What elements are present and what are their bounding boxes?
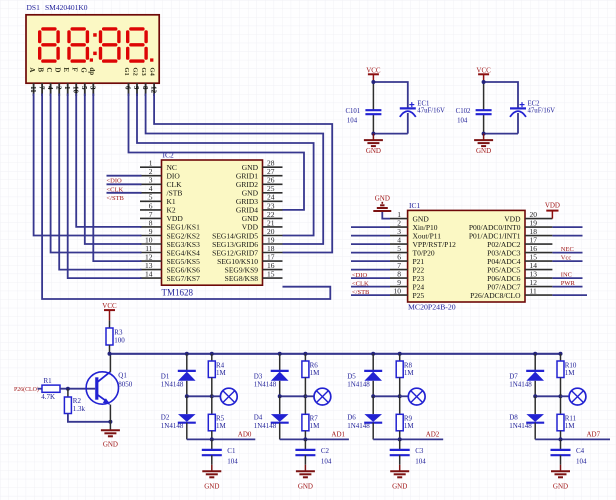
svg-text:GND: GND [298, 482, 313, 490]
IC1 pin 16 (P03/ADC3) [487, 244, 552, 257]
svg-text:C2: C2 [321, 447, 330, 455]
svg-text:AD0: AD0 [238, 431, 252, 439]
IC2 pin 6 (K2) [140, 201, 176, 214]
IC2 pin 14 (SEG7/KS7) [140, 270, 200, 283]
IC2 part number TM1628 [162, 287, 194, 297]
wire middle node of D7/R10 [533, 394, 562, 398]
node label Vcc [561, 255, 572, 262]
svg-text:R11: R11 [565, 414, 577, 422]
wire display seg C to IC2 pin 11 (SEG4) [51, 94, 142, 253]
svg-text:12: 12 [149, 86, 157, 94]
IC1 pin 20 (VDD) [504, 210, 552, 223]
svg-text:G2: G2 [132, 67, 139, 75]
diode D2 1N4148 (cathode down) [161, 396, 196, 439]
display grid pin letters [123, 67, 156, 76]
node label AD7 [587, 431, 601, 439]
wire display seg B wrap-around to IC2 pin 15 (SEG8) [42, 94, 330, 300]
IC2 pin 27 (GRID1) [236, 167, 283, 180]
wire display seg DP to IC2 pin 12 (SEG5) [93, 94, 141, 262]
svg-text:15: 15 [267, 270, 275, 279]
ground below C102 [474, 134, 493, 156]
svg-text:D8: D8 [509, 414, 518, 422]
svg-text:C3: C3 [415, 447, 424, 455]
display colon dots [93, 33, 97, 55]
svg-text:G4: G4 [149, 67, 156, 76]
svg-text:GND: GND [476, 147, 491, 155]
lamp (photo sensor) symbol [561, 388, 586, 405]
node label AD0 [238, 431, 252, 439]
svg-text:Q1: Q1 [118, 372, 127, 380]
ground below C1 [202, 465, 221, 491]
svg-text:8050: 8050 [118, 381, 133, 389]
svg-text:TM1628: TM1628 [162, 287, 194, 297]
wire bottom node AD7 [535, 437, 610, 441]
diode D5 1N4148 (cathode up) [347, 354, 382, 397]
IC2 pin 11 (SEG4/KS4) [140, 244, 200, 257]
svg-text:dp: dp [88, 67, 96, 75]
svg-text:C4: C4 [576, 447, 585, 455]
svg-text:Vcc: Vcc [561, 255, 572, 262]
power VDD at IC1 pin 20 [545, 202, 560, 219]
svg-text:1N4148: 1N4148 [509, 422, 532, 430]
svg-text:104: 104 [227, 457, 238, 465]
IC2 pin 1 (NC) [140, 159, 177, 172]
IC1 pin 14 (P05/ADC5) [487, 261, 552, 274]
svg-text:MC20P24B-20: MC20P24B-20 [408, 302, 456, 311]
IC1 pin 10 (P25) [390, 287, 424, 300]
svg-text:D2: D2 [161, 414, 170, 422]
wire stub IC1 pin 2 [351, 226, 390, 228]
svg-text:11: 11 [530, 287, 537, 296]
wire R2 to emitter node [68, 414, 113, 424]
node label DIO at IC2 [107, 178, 123, 185]
svg-text:8: 8 [141, 86, 149, 90]
node label INC [561, 272, 572, 279]
svg-text:1M: 1M [565, 369, 576, 377]
IC2 pin 21 (VDD) [242, 218, 283, 231]
lamp (photo sensor) symbol [212, 388, 237, 405]
svg-text:1N4148: 1N4148 [254, 422, 277, 430]
resistor R11 1M [557, 396, 577, 439]
svg-text:R7: R7 [310, 414, 319, 422]
display digit 2 (7-segment) [67, 27, 89, 63]
IC1 pin 9 (P24) [390, 278, 424, 291]
node label /STB at IC1 [352, 289, 370, 296]
resistor R10 1M [557, 354, 577, 397]
svg-text:R1: R1 [44, 377, 53, 385]
wire Q1 emitter to ground [109, 405, 111, 431]
power VCC at C102 [476, 66, 491, 82]
IC1 pin 2 (Xin/P10) [390, 219, 438, 232]
wire bottom node AD2 [373, 437, 443, 441]
wire middle node of D1/R4 [185, 394, 214, 398]
svg-text:˂/STB: ˂/STB [107, 195, 125, 202]
power VCC at C101 [366, 66, 381, 82]
wire display seg D to IC2 pin 13 (SEG6) [59, 94, 141, 270]
IC2 pin 18 (SEG12/GRID7) [212, 244, 282, 257]
capacitor C1 104 [202, 439, 239, 465]
display pins (stubs below body) [34, 83, 155, 96]
svg-text:F: F [71, 67, 79, 71]
svg-text:1N4148: 1N4148 [161, 381, 184, 389]
svg-text:AD7: AD7 [587, 431, 601, 439]
display digit 3 (7-segment) [99, 27, 121, 63]
IC2 pin 2 (DIO) [140, 167, 180, 180]
wire Q1 collector to rail [109, 354, 111, 372]
wire IC2 pin 3 net CLK [107, 183, 142, 185]
svg-text:P26/ADC8/CLO: P26/ADC8/CLO [470, 291, 521, 300]
svg-text:4: 4 [46, 86, 54, 90]
svg-text:A: A [28, 67, 36, 72]
svg-text:C102: C102 [456, 108, 471, 115]
capacitor C4 104 [551, 439, 588, 465]
wire display grid G3 to IC2 pin 19 (GRID6) [146, 94, 324, 245]
svg-text:AD2: AD2 [426, 431, 440, 439]
IC2 pin 24 (GRID3) [236, 193, 283, 206]
wire stub IC1 pin 15 [552, 260, 582, 262]
display decimal points [90, 58, 154, 61]
svg-text:C1: C1 [227, 447, 236, 455]
wire IC1 pin 10 net /STB [351, 294, 390, 296]
svg-text:G: G [79, 67, 87, 73]
diode D1 1N4148 (cathode up) [161, 354, 196, 397]
IC1 pin 18 (P01/ADC1/INT1) [469, 227, 553, 240]
IC2 pin 26 (GRID2) [236, 176, 283, 189]
IC2 pin 15 (SEG8/KS8) [225, 270, 283, 283]
svg-text:6: 6 [124, 86, 132, 90]
svg-text:9: 9 [132, 86, 140, 90]
wire display seg A to IC2 pin 9 (SEG2) [34, 94, 142, 236]
svg-text:R5: R5 [216, 414, 225, 422]
ground below C4 [551, 465, 570, 491]
IC2 designator label [163, 150, 175, 159]
IC1 pin 13 (P06/ADC6) [487, 270, 552, 283]
resistor R9 1M [396, 396, 414, 439]
display digit 4 (7-segment) [126, 27, 148, 63]
resistor R7 1M [302, 396, 320, 439]
resistor R5 1M [208, 396, 226, 439]
svg-text:D3: D3 [254, 372, 263, 380]
wire stub IC1 pin 19 [552, 226, 582, 228]
IC2 pin 9 (SEG2/KS2) [140, 227, 200, 240]
IC1 pin 7 (P22) [390, 261, 424, 274]
svg-text:1M: 1M [216, 422, 227, 430]
svg-text:GND: GND [204, 482, 219, 490]
node label CLK at IC2 [107, 186, 124, 193]
svg-text:D1: D1 [161, 372, 170, 380]
svg-text:11: 11 [29, 86, 37, 93]
wire bottom node AD1 [280, 437, 349, 441]
svg-text:P26(CLO): P26(CLO) [14, 386, 39, 393]
svg-text:D7: D7 [509, 372, 518, 380]
svg-text:VCC: VCC [476, 66, 491, 74]
svg-text:C: C [45, 67, 53, 72]
svg-text:˂DIO: ˂DIO [352, 272, 368, 279]
svg-text:104: 104 [576, 457, 587, 465]
svg-text:1M: 1M [310, 422, 321, 430]
wire stub IC1 pin 6 [351, 260, 390, 262]
diode D3 1N4148 (cathode up) [254, 354, 289, 397]
node label P26(CLO) [14, 386, 39, 393]
svg-text:47uF/16V: 47uF/16V [528, 107, 556, 114]
node rail junction at D1 column [185, 352, 214, 356]
display pin numbers [29, 86, 158, 94]
svg-text:IC1: IC1 [409, 201, 421, 210]
svg-text:D: D [54, 67, 62, 72]
wire display grid G4 to IC2 pin 18 (GRID7) [154, 94, 332, 253]
node rail junction at D3 column [278, 352, 308, 356]
transistor Q1 8050 (NPN) [86, 372, 133, 405]
svg-text:VDD: VDD [545, 202, 560, 210]
svg-text:1M: 1M [310, 369, 321, 377]
ground at IC1 pin 1 (bars point up) [373, 195, 391, 211]
wire IC1 pin 1 to ground [382, 211, 390, 219]
IC1 pin 19 (P00/ADC0/INT0) [469, 219, 553, 232]
IC1 pin 3 (Xout/P11) [390, 227, 441, 240]
svg-text:GND: GND [103, 440, 118, 448]
node label /STB at IC2 [107, 195, 125, 202]
svg-text:R4: R4 [216, 361, 225, 369]
svg-text:104: 104 [347, 118, 358, 125]
ground below C3 [390, 465, 409, 491]
svg-text:104: 104 [415, 457, 426, 465]
svg-text:NEC: NEC [561, 246, 574, 253]
svg-text:47uF/16V: 47uF/16V [417, 107, 445, 114]
svg-text:10: 10 [71, 86, 79, 94]
display segment pin letters [28, 67, 96, 75]
ground below C2 [296, 465, 315, 491]
svg-text:1N4148: 1N4148 [509, 381, 532, 389]
resistor R8 1M [396, 354, 414, 397]
display DS1 SM420401K0 body [26, 15, 159, 83]
IC1 pin 5 (T0/P20) [390, 244, 435, 257]
svg-text:DS1: DS1 [27, 3, 41, 12]
capacitor C3 104 [390, 439, 427, 465]
node label DIO at IC1 [352, 272, 368, 279]
svg-text:1M: 1M [565, 422, 576, 430]
svg-text:100: 100 [114, 336, 125, 344]
wire P26(CLO) to R1 [38, 388, 43, 390]
wire stub IC1 pin 11 [552, 294, 587, 296]
IC2 pin 20 (SEG14/GRID5) [212, 227, 282, 240]
svg-text:R8: R8 [404, 361, 413, 369]
wire IC1 pin 9 net CLK [351, 286, 390, 288]
node rail junction at D7 column [533, 352, 562, 356]
wire stub IC1 pin 13 [552, 277, 582, 279]
IC1 pin 15 (P04/ADC4) [487, 253, 552, 266]
svg-text:R10: R10 [565, 361, 577, 369]
svg-text:1N4148: 1N4148 [347, 381, 370, 389]
svg-text:G1: G1 [123, 67, 130, 75]
wire collector rail across sensor groups [108, 352, 561, 356]
svg-text:104: 104 [321, 457, 332, 465]
IC2 pin 16 (SEG9/KS9) [225, 261, 283, 274]
svg-text:10: 10 [394, 287, 402, 296]
diode D6 1N4148 (cathode down) [347, 396, 382, 439]
resistor R1 4.7K [41, 377, 60, 401]
svg-text:1N4148: 1N4148 [347, 422, 370, 430]
IC2 pin 12 (SEG5/KS5) [140, 253, 200, 266]
IC1 pin 1 (GND) [390, 210, 429, 223]
svg-text:GND: GND [392, 482, 407, 490]
svg-text:2: 2 [54, 86, 62, 90]
svg-text:R3: R3 [114, 328, 123, 336]
svg-text:˂CLK: ˂CLK [352, 280, 369, 287]
svg-text:C101: C101 [345, 108, 360, 115]
node label CLK at IC1 [352, 280, 369, 287]
svg-text:INC: INC [561, 272, 572, 279]
svg-text:104: 104 [457, 118, 468, 125]
svg-text:VCC: VCC [102, 302, 117, 310]
wire stub IC1 pin 12 [552, 286, 582, 288]
wire stub IC1 pin 3 [351, 235, 390, 237]
svg-text:3: 3 [89, 86, 97, 90]
svg-text:SM420401K0: SM420401K0 [45, 3, 88, 12]
IC1 pin 12 (P07/ADC7) [487, 278, 552, 291]
display digit 1 (7-segment) [38, 27, 60, 63]
IC2 pin 19 (SEG13/GRID6) [212, 235, 282, 248]
svg-text:1M: 1M [404, 422, 415, 430]
op IC U2: TM1628 body [162, 160, 263, 285]
wire VCC loop for C101/EC1 [371, 80, 407, 136]
svg-text:GND: GND [375, 195, 390, 203]
wire IC1 pin 8 net DIO [351, 277, 390, 279]
wire stub IC1 pin 7 [351, 269, 390, 271]
wire display seg G to IC2 pin 10 (SEG3) [85, 94, 142, 245]
node label AD2 [426, 431, 440, 439]
capacitor C2 104 [295, 439, 332, 465]
diode D4 1N4148 (cathode down) [254, 396, 289, 439]
ground below C101 [364, 134, 383, 156]
svg-text:7: 7 [37, 86, 45, 90]
diode D7 1N4148 (cathode up) [509, 354, 544, 397]
node label NEC [561, 246, 574, 253]
svg-text:1N4148: 1N4148 [161, 422, 184, 430]
svg-text:5: 5 [80, 86, 88, 90]
svg-text:R6: R6 [310, 361, 319, 369]
resistor R2 1.3k [64, 389, 85, 414]
wire display seg F to IC2 pin 8 (SEG1) [76, 94, 141, 227]
resistor R3 100 [106, 320, 125, 353]
IC2 pin 7 (VDD) [140, 210, 183, 223]
svg-text:14: 14 [145, 270, 153, 279]
resistor R4 1M [208, 354, 226, 397]
svg-text:SEG8/KS8: SEG8/KS8 [225, 274, 259, 283]
svg-text:4.7K: 4.7K [41, 393, 55, 401]
IC1 pin 11 (P26/ADC8/CLO) [470, 287, 552, 300]
wire bottom node AD0 [187, 437, 256, 441]
wire display grid G2 to IC2 pin 20 (GRID5) [137, 94, 314, 236]
diode D8 1N4148 (cathode down) [509, 396, 544, 439]
capacitor EC1 47uF/16V electrolytic [400, 101, 445, 117]
wire R1 to Q1 base [60, 387, 95, 391]
IC2 pin 8 (SEG1/KS1) [140, 218, 200, 231]
svg-text:R9: R9 [404, 414, 413, 422]
svg-text:D5: D5 [347, 372, 356, 380]
capacitor C101 104 [345, 108, 381, 124]
op IC U1: MC20P24B-20 body [408, 210, 525, 302]
IC1 designator label [409, 201, 421, 210]
display DS1 designator label [27, 3, 88, 12]
IC2 pin 17 (SEG10/KS10) [217, 253, 282, 266]
wire stub IC1 pin 4 [351, 243, 390, 245]
svg-text:1M: 1M [404, 369, 415, 377]
IC1 pin 17 (P02/ADC2) [487, 236, 552, 249]
svg-text:R2: R2 [73, 397, 82, 405]
wire display grid G1 to IC2 pin 23 (GRID4) [129, 94, 305, 210]
wire middle node of D3/R6 [278, 394, 308, 398]
svg-text:1M: 1M [216, 369, 227, 377]
wire IC2 pin 4 net /STB [107, 192, 142, 194]
svg-text:AD1: AD1 [331, 431, 345, 439]
IC1 pin 6 (P21) [390, 253, 424, 266]
lamp (photo sensor) symbol [400, 388, 425, 405]
wire middle node of D5/R8 [371, 394, 402, 398]
svg-text:1: 1 [63, 86, 71, 90]
IC2 pin 23 (GRID4) [236, 201, 283, 214]
svg-text:G3: G3 [140, 67, 147, 76]
svg-text:P25: P25 [413, 291, 425, 300]
svg-text:GND: GND [553, 482, 568, 490]
svg-text:VCC: VCC [366, 66, 381, 74]
svg-text:E: E [62, 67, 70, 72]
IC1 pin 4 (VPP/RST/P12) [390, 236, 456, 249]
IC2 pin 22 (GND) [242, 210, 283, 223]
svg-text:D4: D4 [254, 414, 263, 422]
IC2 pin 5 (K1) [140, 193, 176, 206]
wire stub IC1 pin 18 [552, 235, 582, 237]
power VCC at R3 [102, 302, 117, 320]
svg-text:B: B [37, 67, 45, 72]
svg-text:1.3k: 1.3k [73, 405, 86, 413]
IC2 pin 28 (GND) [242, 159, 283, 172]
node rail junction at D5 column [371, 352, 402, 356]
svg-text:GND: GND [366, 147, 381, 155]
wire IC2 pin 2 net DIO [107, 175, 142, 177]
svg-text:PWR: PWR [561, 280, 576, 287]
svg-text:SEG7/KS7: SEG7/KS7 [167, 274, 201, 283]
node label PWR [561, 280, 576, 287]
IC2 pin 10 (SEG3/KS3) [140, 235, 200, 248]
IC1 pin 8 (P23) [390, 270, 424, 283]
IC1 part number MC20P24B-20 [408, 302, 456, 311]
svg-text:D6: D6 [347, 414, 356, 422]
capacitor EC2 47uF/16V electrolytic [510, 101, 555, 117]
IC2 pin 13 (SEG6/KS6) [140, 261, 200, 274]
capacitor C102 104 [456, 108, 492, 124]
IC2 pin 3 (CLK) [140, 176, 182, 189]
wire stub IC1 pin 5 [351, 252, 390, 254]
ground below Q1 [101, 430, 120, 448]
wire display seg E to IC2 pin 14 (SEG7) [68, 94, 142, 279]
lamp (photo sensor) symbol [305, 388, 330, 405]
svg-text:1N4148: 1N4148 [254, 381, 277, 389]
wire VCC loop for C102/EC2 [482, 80, 518, 136]
svg-text:˂/STB: ˂/STB [352, 289, 370, 296]
wire stub IC1 pin 16 [552, 252, 582, 254]
IC2 pin 25 (GND) [242, 184, 283, 197]
IC2 pin 4 (/STB) [140, 184, 182, 197]
resistor R6 1M [302, 354, 320, 397]
node label AD1 [331, 431, 345, 439]
